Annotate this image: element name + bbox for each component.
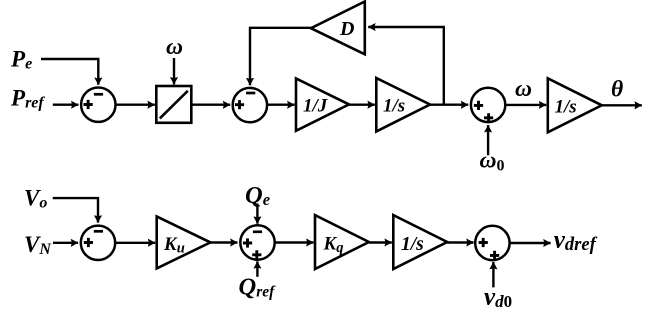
- S4 plus sign: [84, 238, 93, 247]
- S5 plus sign left: [243, 238, 252, 247]
- limiter box: [156, 86, 191, 123]
- svg-text:Pref: Pref: [10, 85, 45, 111]
- svg-text:VN: VN: [24, 232, 52, 258]
- summing junction S5: [240, 225, 274, 259]
- S4 minus sign: [94, 230, 103, 233]
- wire V_o to summing junction S4: [53, 198, 98, 223]
- wire omega_0 to S3: [487, 125, 489, 155]
- output wire v_dref: [510, 242, 551, 244]
- wire P_ref to summing junction S1: [53, 103, 79, 105]
- wire K_u to summing junction S5: [210, 241, 237, 243]
- wire P_e to summing junction S1: [41, 59, 98, 85]
- svg-text:Ku: Ku: [163, 234, 185, 256]
- svg-text:ω: ω: [515, 76, 532, 102]
- svg-text:1/s: 1/s: [383, 96, 405, 117]
- S3 plus sign bottom: [484, 113, 493, 122]
- wire omega to limiter box: [173, 58, 175, 84]
- wire Q_ref to S5: [256, 261, 258, 277]
- S1 plus sign: [84, 100, 93, 109]
- S6 plus sign bottom: [490, 251, 499, 260]
- integrator block 1/s (bottom): [393, 215, 447, 269]
- limiter diagonal: [160, 91, 188, 119]
- damping block D (points left): [311, 2, 365, 55]
- wire box to summing junction S2: [191, 103, 230, 105]
- wire S3 to integrator 1/s (theta): [506, 104, 546, 106]
- wire 1/s to summing junction S3: [430, 103, 468, 105]
- summing junction S6: [475, 226, 509, 260]
- gain block K_u: [157, 216, 211, 268]
- summing junction S1: [81, 88, 115, 122]
- wire K_q to integrator 1/s (bottom): [369, 241, 392, 243]
- svg-text:1/s: 1/s: [401, 234, 424, 255]
- wire D to summing junction S2: [250, 28, 311, 85]
- S3 plus sign left: [474, 101, 483, 110]
- svg-text:D: D: [339, 18, 354, 40]
- svg-text:Pe: Pe: [10, 47, 32, 73]
- wire S2 to gain 1/J: [267, 103, 294, 105]
- wire Q_e to S5: [256, 204, 258, 224]
- S5 minus sign top: [253, 230, 262, 233]
- wire V_N to summing junction S4: [53, 242, 78, 244]
- wire v_d0 to S6: [492, 262, 494, 287]
- svg-text:Qref: Qref: [239, 273, 277, 300]
- wire 1/J to integrator 1/s: [349, 103, 375, 105]
- output wire theta: [602, 104, 642, 106]
- S6 plus sign left: [479, 238, 488, 247]
- svg-text:Kq: Kq: [323, 234, 344, 257]
- S5 plus sign bottom: [252, 250, 261, 259]
- wire S5 to gain K_q: [275, 241, 314, 243]
- svg-text:1/J: 1/J: [303, 96, 328, 117]
- svg-text:vd0: vd0: [484, 284, 512, 312]
- feedback wire up to damping D: [368, 27, 444, 105]
- wire S1 to limiter box: [116, 103, 155, 105]
- svg-text:ω: ω: [166, 34, 183, 60]
- S1 minus sign: [94, 93, 103, 96]
- summing junction S2: [233, 88, 267, 122]
- integrator block 1/s (theta): [548, 78, 602, 132]
- wire S4 to gain K_u: [115, 242, 155, 244]
- summing junction S4: [81, 226, 115, 260]
- svg-text:1/s: 1/s: [555, 96, 577, 117]
- svg-text:θ: θ: [611, 77, 623, 103]
- S2 minus sign: [246, 92, 255, 95]
- gain block 1/J: [296, 79, 349, 131]
- svg-text:ω0: ω0: [480, 148, 505, 175]
- summing junction S3: [471, 88, 505, 122]
- wire 1/s to summing junction S6: [447, 241, 473, 243]
- S2 plus sign: [235, 100, 244, 109]
- svg-text:vdref: vdref: [554, 227, 598, 256]
- gain block K_q: [315, 215, 369, 269]
- svg-text:Vo: Vo: [24, 185, 47, 211]
- integrator block 1/s (top): [376, 78, 430, 132]
